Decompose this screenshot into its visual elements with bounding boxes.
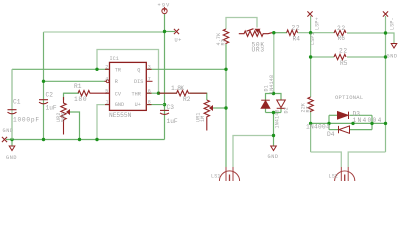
wire UR1 wiper to Q column [210, 107, 226, 109]
junction diode block row / right stub [370, 122, 373, 125]
junction diode block row mid [351, 122, 354, 125]
wire +9V top rail left half [44, 31, 101, 33]
svg-text:1: 1 [106, 100, 109, 106]
supply symbol +9V [162, 7, 167, 14]
capacitor C2 [39, 100, 48, 104]
resistor R4 [287, 30, 298, 35]
wire output row UR3 to R4 [272, 32, 287, 34]
svg-text:1N4148: 1N4148 [275, 109, 281, 128]
wire R2 right lead to UR1 top [190, 93, 207, 100]
junction diode block row / left stub [327, 122, 330, 125]
junction ground rail / UR2 wiper drop [78, 138, 81, 141]
junction R6 / LSP- rail [384, 31, 387, 34]
wire +9V top rail right half [100, 31, 165, 33]
speaker LS2 [335, 167, 355, 181]
svg-text:C3: C3 [167, 104, 175, 111]
wire D1 branch bottom [265, 109, 267, 113]
wire R5 row right segment [347, 56, 386, 58]
svg-text:C2: C2 [46, 92, 54, 99]
wire speaker LS1 return to mid column [233, 136, 274, 168]
svg-text:D4: D4 [327, 131, 335, 138]
svg-text:UR3: UR3 [252, 46, 265, 53]
svg-text:22: 22 [292, 25, 301, 32]
svg-text:IC1: IC1 [110, 56, 119, 62]
svg-text:1N4148: 1N4148 [269, 75, 275, 94]
wire LSP- right rail (X2 down) [385, 16, 387, 152]
junction diode block row / LSP+ rail [309, 122, 312, 125]
svg-text:GND: GND [6, 155, 17, 161]
junction LS1 return / mid ground column [272, 134, 275, 137]
svg-text:NE555N: NE555N [109, 112, 132, 119]
svg-text:R: R [115, 79, 118, 85]
svg-text:7: 7 [148, 76, 151, 82]
wire diode block main row [311, 122, 386, 124]
junction U+ pin row / +9V column [163, 103, 166, 106]
junction D1/D2 top split [272, 92, 275, 95]
svg-text:1000pF: 1000pF [13, 117, 40, 124]
wire diode pair bottom join [266, 112, 282, 114]
svg-text:3: 3 [148, 64, 151, 70]
wire Q output row from IC1 pin 3 [146, 68, 226, 70]
wire R6 right lead to right rail [347, 32, 386, 34]
svg-text:U+: U+ [175, 38, 182, 44]
svg-text:Q: Q [137, 68, 140, 74]
junction Q row / R3 column [224, 68, 227, 71]
pin X1 U+ cross [174, 29, 179, 34]
trimmer UR2 [61, 97, 70, 135]
svg-text:R5: R5 [340, 60, 348, 67]
junction UR1 wiper / Q column [224, 106, 227, 109]
pin stub DIS pin 7 [146, 80, 152, 82]
wire bottom U left leg to speaker LS2 [311, 152, 342, 167]
svg-text:1N4004: 1N4004 [353, 117, 383, 124]
svg-text:R2: R2 [183, 96, 191, 103]
pin 4 inversion bubble [106, 80, 109, 83]
svg-text:LS1: LS1 [211, 174, 221, 180]
ic IC1 NE555N body [110, 62, 147, 110]
svg-text:R3: R3 [221, 39, 227, 45]
resistor R6 [334, 30, 346, 35]
svg-text:2: 2 [105, 64, 108, 70]
svg-text:GND: GND [115, 102, 124, 108]
wire D4 row right lead [350, 129, 372, 131]
ground arrow right [391, 44, 397, 49]
svg-text:GND: GND [268, 154, 279, 160]
svg-text:22: 22 [337, 25, 346, 32]
wire +9V vertical rail at x=43.5 [43, 32, 45, 140]
wire CV row from UR2 top to R1 [64, 93, 80, 100]
svg-text:1N4004: 1N4004 [306, 123, 330, 130]
wire mid column down to GND arrow mid [273, 113, 275, 147]
junction ground rail / IC1 GND drop [95, 138, 98, 141]
wire D2 branch bottom [280, 109, 282, 113]
wire TR over-the-top feedback to THR [97, 50, 159, 94]
wire right rail corner to GND arrow right [386, 33, 395, 44]
capacitor C3 [160, 110, 169, 114]
wire D3 row right lead [350, 114, 373, 116]
svg-text:R1: R1 [74, 83, 82, 90]
svg-text:R4: R4 [293, 36, 301, 43]
junction TR row / feedback riser [95, 68, 98, 71]
junction R5 / LSP+ rail [309, 55, 312, 58]
wire D1/D2 column from output row node [273, 33, 275, 94]
junction ground rail / C1 column [10, 138, 13, 141]
svg-text:LS2: LS2 [329, 174, 339, 180]
speaker LS1 [219, 167, 239, 181]
junction D1/D2 bottom join [272, 111, 275, 114]
resistor R5 [334, 54, 346, 59]
wire R pin 4 row to +9V rail [44, 80, 107, 82]
svg-text:+9V: +9V [158, 3, 171, 9]
svg-text:GND: GND [387, 54, 398, 60]
wire D4 row left lead [329, 129, 338, 131]
capacitor C1 [8, 69, 17, 139]
diode D3 [338, 112, 349, 119]
diode D4 [339, 126, 350, 133]
svg-text:CV: CV [115, 91, 122, 97]
junction diode block row / LSP- rail [384, 122, 387, 125]
diode D1 [261, 100, 270, 108]
svg-text:R6: R6 [338, 35, 346, 42]
wire CV row lead into R1 [64, 92, 79, 94]
svg-text:TR: TR [115, 68, 121, 74]
wire D2 branch top [274, 94, 282, 101]
pin stubs IC1 [105, 69, 152, 104]
wire LSP+ rail upper (X1 to R7) [310, 16, 312, 97]
resistor R7 [308, 97, 313, 111]
wire D3/D4 right stub [371, 115, 373, 129]
wire LSP+ rail lower (R7 to bottom U) [310, 111, 312, 153]
wire D3/D4 left stub [328, 115, 330, 129]
junction +9V rail / R pin row [42, 80, 45, 83]
svg-text:LSP+: LSP+ [315, 17, 321, 30]
junction ground rail / C2 column [42, 138, 45, 141]
svg-text:C1: C1 [13, 99, 21, 106]
wire output row R4 to R6 and LSP rail [298, 32, 335, 34]
wire Q column down to speaker LS1 [225, 69, 227, 167]
svg-text:1uF: 1uF [167, 118, 178, 125]
trimmer UR1 [204, 100, 213, 131]
wire stub from ground rail to GND arrow [11, 140, 13, 147]
svg-text:THR: THR [132, 91, 141, 97]
wire C1 column vertical at x=12 [11, 69, 13, 139]
pin X3 LSP- cross [383, 11, 388, 16]
junction output row / LSP+ rail [309, 31, 312, 34]
svg-text:R7: R7 [306, 106, 312, 112]
svg-text:180: 180 [74, 96, 87, 103]
wire THR row from IC1 pin 6 to R2 [146, 92, 177, 94]
wire R3 bottom into Q column [225, 44, 227, 69]
svg-text:UR2: UR2 [56, 112, 62, 122]
svg-text:4: 4 [105, 76, 108, 82]
wire stub to pin X1 U+ [165, 31, 176, 33]
wire U+ pin 8 to +9V column [146, 104, 164, 106]
wire R5 row left segment [311, 56, 334, 58]
svg-text:U+: U+ [135, 102, 141, 108]
wire bottom U right leg to speaker LS2 [348, 152, 385, 167]
pin X GND cross left [2, 137, 7, 142]
svg-text:1uF: 1uF [46, 105, 57, 112]
wire UR2 wiper to ground rail [70, 112, 80, 140]
ground arrow mid [271, 146, 277, 151]
wire TR row from C1 column to IC1 pin 2 [12, 68, 110, 70]
wire +9V drop from supply symbol down to U+ pin and C3 column [164, 14, 166, 140]
junction R5 / LSP- rail [384, 55, 387, 58]
svg-text:1.8K: 1.8K [171, 85, 184, 92]
svg-text:UR1: UR1 [195, 112, 201, 122]
svg-text:22: 22 [339, 48, 348, 55]
svg-text:OPTIONAL: OPTIONAL [335, 94, 363, 101]
junction +9V rail / U+ pin X1 [163, 30, 166, 33]
svg-text:LSP1: LSP1 [310, 32, 316, 45]
svg-text:8: 8 [148, 100, 151, 106]
junction THR row / feedback riser [157, 92, 160, 95]
resistor R2 [159, 91, 207, 96]
svg-text:D2: D2 [283, 107, 289, 113]
wire D3 row left lead [329, 114, 337, 116]
wire GND pin 1 drop to ground rail [97, 105, 110, 140]
wire R3 top inverted-U to UR3 wiper [226, 18, 257, 30]
diode D2 [277, 100, 286, 108]
resistor R1 [78, 91, 110, 96]
wire ground rail [6, 139, 165, 141]
resistor R3 [223, 29, 228, 44]
ground arrow left [9, 146, 15, 151]
trimmer UR3 [239, 29, 272, 37]
wire D1 branch top [266, 94, 274, 101]
junction output row / D1-D2 column [272, 31, 275, 34]
svg-text:DIS: DIS [134, 79, 143, 85]
pin X2 LSP+ cross [307, 11, 312, 16]
svg-text:6: 6 [148, 88, 151, 94]
svg-text:LSP-: LSP- [390, 17, 396, 30]
